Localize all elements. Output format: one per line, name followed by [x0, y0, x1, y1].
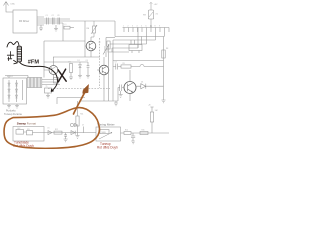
svg-text:6: 6: [146, 25, 147, 27]
svg-text:8: 8: [155, 25, 156, 27]
svg-text:C9: C9: [115, 62, 117, 64]
svg-text:Sweep Format: Sweep Format: [17, 122, 36, 126]
svg-text:#FM: #FM: [28, 59, 40, 65]
svg-text:C4: C4: [86, 60, 88, 62]
svg-text:+9V: +9V: [154, 4, 158, 6]
svg-text:L1: L1: [65, 24, 67, 26]
svg-text:LS: LS: [48, 128, 50, 130]
svg-text:2: 2: [128, 25, 129, 27]
svg-text:R1: R1: [69, 62, 71, 64]
svg-text:R15: R15: [142, 130, 145, 132]
svg-text:T1: T1: [46, 86, 48, 88]
svg-text:R9: R9: [123, 63, 125, 65]
svg-text:9: 9: [159, 25, 160, 27]
svg-text:C2: C2: [52, 15, 54, 17]
svg-text:7: 7: [150, 25, 151, 27]
svg-text:C1: C1: [46, 15, 48, 17]
svg-text:9M: 9M: [155, 110, 158, 112]
svg-text:4: 4: [137, 25, 138, 27]
svg-text:C3: C3: [57, 15, 59, 17]
svg-text:D4: D4: [141, 81, 143, 83]
svg-text:Tuneup Furama: Tuneup Furama: [4, 113, 22, 116]
svg-text:Rot dfkls Duyh: Rot dfkls Duyh: [97, 146, 118, 150]
svg-text:5: 5: [141, 25, 142, 27]
svg-text:K1 RLY: K1 RLY: [7, 76, 14, 78]
svg-text:1: 1: [123, 25, 124, 27]
svg-text:R11: R11: [80, 114, 83, 116]
svg-text:9M: 9M: [143, 15, 146, 17]
svg-text:LNA: LNA: [11, 3, 16, 6]
svg-text:D1: D1: [78, 60, 80, 62]
svg-text:3: 3: [132, 25, 133, 27]
svg-text:R14: R14: [125, 130, 128, 132]
svg-text:C7: C7: [82, 125, 84, 127]
svg-text:R8: R8: [166, 48, 168, 50]
svg-text:R12: R12: [55, 129, 58, 131]
svg-text:RF Driver: RF Driver: [19, 20, 29, 23]
